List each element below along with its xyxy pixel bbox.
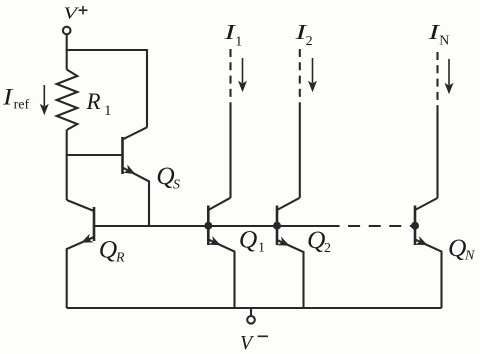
transistor QN — [415, 198, 442, 308]
current line I2 dashed — [299, 49, 301, 110]
wire node A to QS base — [67, 154, 123, 156]
wire I1 to Q1 collector — [229, 110, 231, 198]
current arrow IN — [445, 59, 454, 94]
current arrow I2 — [308, 58, 317, 92]
node dot Q2 base — [273, 222, 281, 230]
label I2 — [294, 20, 313, 49]
current arrow I1 — [238, 58, 247, 92]
label Iref — [2, 84, 29, 112]
wire QS collector feed — [146, 49, 148, 128]
current line I1 dashed — [229, 49, 231, 110]
svg-text:Q: Q — [156, 161, 174, 190]
wire base rail dashed — [328, 225, 416, 227]
wire resistor bottom to node A — [66, 130, 68, 155]
svg-text:1: 1 — [235, 35, 242, 50]
wire bottom rail — [67, 307, 442, 309]
label Q2 — [307, 225, 331, 256]
node dot QN base — [411, 222, 419, 230]
transistor QS — [123, 127, 150, 226]
wire V+ down to branch node — [66, 35, 68, 70]
svg-text:Q: Q — [99, 235, 117, 264]
plus sign of V+ — [79, 6, 88, 14]
svg-text:S: S — [173, 178, 180, 193]
transistor Q1 — [208, 198, 234, 308]
svg-text:V: V — [64, 4, 81, 23]
svg-text:ref: ref — [14, 98, 30, 113]
svg-text:I: I — [2, 84, 14, 109]
svg-text:2: 2 — [324, 241, 331, 256]
wire I2 to Q2 collector — [299, 110, 301, 198]
svg-text:1: 1 — [104, 103, 112, 119]
label R1 — [86, 89, 112, 119]
terminal V- — [247, 308, 255, 324]
label QN — [448, 233, 475, 264]
resistor R1 — [57, 70, 78, 131]
svg-text:Q: Q — [239, 225, 257, 254]
transistor Q2 — [277, 198, 304, 308]
label I1 — [223, 20, 242, 50]
svg-text:R: R — [115, 251, 125, 266]
wire IN to QN collector — [436, 108, 438, 198]
wire top rail — [66, 49, 147, 51]
wire base rail solid — [94, 225, 328, 227]
label QR — [99, 235, 125, 266]
current line IN dashed — [436, 52, 438, 108]
svg-text:Q: Q — [448, 233, 466, 262]
svg-text:N: N — [439, 34, 449, 49]
label V+ — [64, 4, 81, 23]
svg-text:R: R — [86, 89, 101, 114]
terminal V+ — [63, 27, 71, 35]
label IN — [427, 20, 449, 49]
current arrow Iref — [40, 85, 49, 115]
wire node A down to QR collector — [66, 154, 68, 200]
svg-text:1: 1 — [258, 241, 265, 256]
transistor QR — [67, 200, 94, 308]
svg-text:N: N — [464, 249, 475, 264]
svg-text:Q: Q — [307, 225, 325, 254]
svg-text:V: V — [240, 332, 255, 354]
svg-text:2: 2 — [306, 34, 313, 49]
minus sign of V- — [258, 335, 269, 337]
label V- — [240, 332, 255, 354]
label QS — [156, 161, 180, 193]
node dot Q1 base — [204, 222, 212, 230]
label Q1 — [239, 225, 265, 256]
